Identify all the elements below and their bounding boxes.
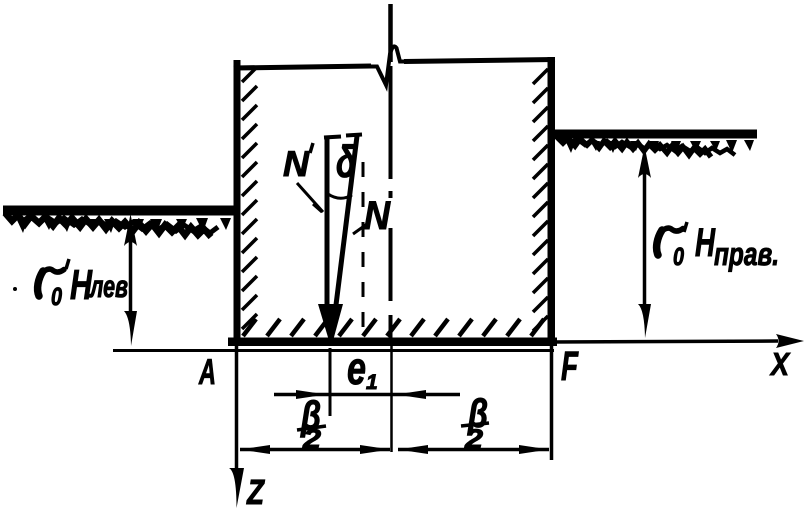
- svg-text:0: 0: [51, 283, 62, 311]
- leader for N: [353, 224, 367, 234]
- center axis line above wall: [388, 4, 393, 62]
- gamma0 H left dimension arrow: [129, 238, 133, 318]
- force N slanted shaft: [336, 136, 357, 305]
- svg-text:2: 2: [302, 424, 321, 454]
- svg-text:F: F: [561, 343, 579, 389]
- ground line left: [3, 206, 237, 216]
- svg-text:N: N: [283, 143, 310, 184]
- X axis arrowhead: [776, 334, 804, 348]
- ground scribble right: [556, 136, 711, 157]
- wall right edge: [548, 57, 556, 345]
- point A extension and Z axis: [235, 345, 239, 473]
- svg-text:1: 1: [366, 371, 378, 394]
- svg-text:A: A: [198, 351, 216, 392]
- svg-text:лев: лев: [89, 269, 128, 304]
- label gamma0 H lev: [38, 259, 128, 311]
- svg-text:Z: Z: [246, 473, 265, 511]
- svg-text:δ: δ: [336, 136, 356, 187]
- svg-text:2: 2: [464, 424, 483, 454]
- top tick left: [324, 137, 341, 138]
- X axis left segment: [113, 349, 554, 352]
- center axis extension below base: [390, 345, 393, 452]
- b/2 right dimension: [398, 448, 549, 452]
- top tick right: [346, 135, 362, 136]
- svg-text:e: e: [347, 342, 366, 394]
- break squiggle: [369, 46, 407, 85]
- dashed vertical reference line: [362, 162, 365, 340]
- wall top edge right segment: [404, 60, 555, 62]
- stray speck: [13, 287, 17, 291]
- hatching right wall inner face: [533, 69, 548, 331]
- common arrowhead at base: [318, 304, 343, 339]
- b/2 left dimension: [240, 448, 390, 452]
- X axis right segment: [551, 341, 778, 342]
- point F extension line: [550, 345, 554, 460]
- e1 dimension line: [274, 393, 460, 397]
- wall top edge left segment: [234, 66, 372, 68]
- svg-text:прав.: прав.: [714, 236, 779, 272]
- svg-text:X: X: [769, 346, 790, 382]
- hatching base top face: [243, 319, 544, 336]
- ground line right: [553, 130, 757, 139]
- ground scribble left: [5, 213, 211, 237]
- leader for N-prime: [297, 183, 323, 212]
- delta angle arc: [328, 194, 352, 198]
- gamma0 H right dimension arrow: [643, 170, 647, 310]
- e1 extension line: [329, 348, 332, 416]
- svg-text:0: 0: [673, 243, 684, 271]
- center axis line inside wall (dash-dot): [389, 66, 393, 179]
- label gamma0 H prav: [657, 221, 779, 272]
- hatching left wall inner face: [242, 67, 257, 329]
- force N-prime vertical shaft: [325, 137, 330, 307]
- foundation base slab: [228, 338, 557, 347]
- wall left edge: [234, 60, 241, 345]
- svg-text:N: N: [364, 194, 391, 238]
- svg-text:H: H: [695, 221, 716, 265]
